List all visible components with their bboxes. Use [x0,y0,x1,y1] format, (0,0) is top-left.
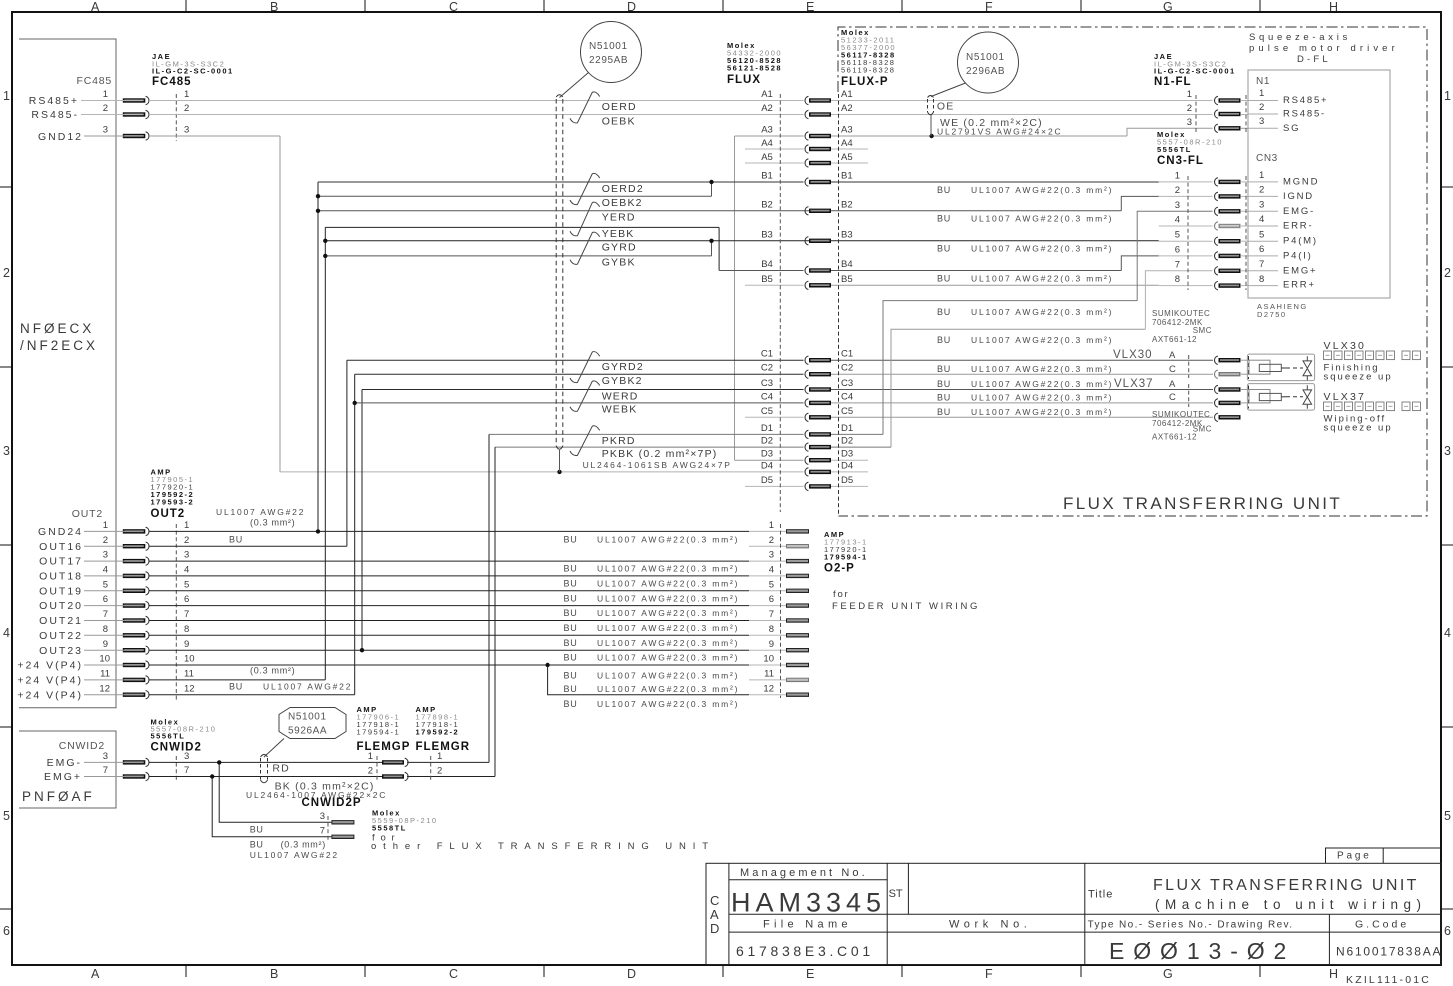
svg-text:RD: RD [272,763,290,775]
svg-text:P4(M): P4(M) [1283,236,1318,247]
page box [1326,848,1442,863]
svg-text:UL1007 AWG#22(0.3 mm²): UL1007 AWG#22(0.3 mm²) [597,684,739,694]
wire OUT19 row5 [84,590,143,592]
wire YEBK (to B4) [325,226,719,228]
svg-text:A4: A4 [761,138,773,149]
svg-text:1: 1 [1175,170,1180,181]
svg-text:3: 3 [103,125,108,136]
twist OERD/OEBK [570,92,600,123]
crimp O2P-10 [786,663,809,667]
svg-text:56121-8528: 56121-8528 [727,64,782,73]
splice CNWID2-7 [123,772,149,780]
svg-text:11: 11 [100,669,110,680]
svg-text:1: 1 [3,89,10,103]
junction GYBK riser [323,254,327,258]
wire GYBK joins B3 [325,255,711,257]
wire WERD / C3 (VLX37 A) [362,389,804,391]
svg-text:CNWID2: CNWID2 [151,742,202,754]
svg-text:4: 4 [1259,214,1264,225]
svg-text:C5: C5 [841,406,853,417]
wire +24V row11 to riser [84,679,143,681]
actuator valve VLX30 [1303,356,1312,380]
maker label SUMIKOUTEC upper [1152,309,1212,344]
valve VLX30 [1247,354,1314,381]
svg-text:other FLUX TRANSFERRING UNIT: other FLUX TRANSFERRING UNIT [371,841,715,852]
svg-text:BU: BU [564,699,578,709]
svg-text:BU: BU [564,535,578,545]
cable sheath marker RD/BK 2C [261,755,268,783]
splice OUT2-3 [123,557,149,565]
svg-text:PKBK (0.2 mm²×7P): PKBK (0.2 mm²×7P) [602,448,718,460]
splice OUT2-12 [123,691,149,699]
crimp O2P-6 [786,603,809,607]
wire B4 net (to CN3 pin6) [719,270,803,272]
svg-text:A4: A4 [841,138,853,149]
svg-text:1: 1 [1259,88,1264,99]
svg-text:7: 7 [184,765,189,776]
svg-text:BU: BU [937,185,951,195]
svg-text:B1: B1 [761,171,773,182]
svg-text:SUMIKOUTEC: SUMIKOUTEC [1152,410,1210,419]
svg-text:A5: A5 [761,152,773,163]
svg-text:UL1007 AWG#22(0.3 mm²): UL1007 AWG#22(0.3 mm²) [971,244,1113,254]
svg-text:B1: B1 [841,171,853,182]
crimp O2P-8 [786,633,809,637]
wire OUT20 row6 [84,605,143,607]
svg-text:3: 3 [1187,117,1192,128]
wire EMG- branch to CNWID2P pin3 [219,762,331,822]
svg-text:4: 4 [103,565,108,576]
svg-text:B2: B2 [761,199,773,210]
svg-text:9: 9 [184,639,189,650]
svg-text:6: 6 [1175,244,1180,255]
splice VLX30-A [1215,356,1241,364]
svg-text:squeeze up: squeeze up [1324,423,1393,434]
connector O2-P header (AMP) [824,530,868,575]
svg-text:BU: BU [250,825,264,835]
svg-text:GND12: GND12 [38,131,83,143]
svg-text:2: 2 [184,103,189,114]
FC485 dashed connector line [175,94,177,141]
vertical PKBK to FLEMGR2 [494,447,496,776]
svg-text:B: B [270,0,278,14]
svg-text:P4(I): P4(I) [1283,250,1313,261]
svg-text:BU: BU [937,407,951,417]
svg-text:A: A [91,967,100,981]
svg-text:D3: D3 [841,449,853,460]
svg-text:3: 3 [184,550,189,561]
svg-text:179594-1: 179594-1 [824,553,868,562]
svg-text:GYRD2: GYRD2 [602,361,644,373]
svg-text:UL1007 AWG#22(0.3 mm²): UL1007 AWG#22(0.3 mm²) [971,379,1113,389]
svg-text:3: 3 [184,125,189,136]
svg-text:BU: BU [564,579,578,589]
stub CN3 pin4 [1159,225,1213,227]
splice CN3-5 [1215,237,1241,245]
svg-text:PNFØAF: PNFØAF [22,789,95,804]
valve VLX37 description [1324,391,1421,434]
splice FC485-2 [123,110,149,118]
svg-text:EØØ13-Ø2: EØØ13-Ø2 [1109,938,1295,964]
svg-text:OUT2: OUT2 [72,508,103,520]
svg-text:179593-2: 179593-2 [151,498,195,507]
svg-text:FLEMGR: FLEMGR [416,741,471,753]
wire cable drain 7P [559,450,561,472]
svg-text:File Name: File Name [763,919,852,931]
svg-text:11: 11 [184,669,194,680]
splice CN3-1 [1215,178,1241,186]
wire EMG+ branch to CNWID2P pin7 [212,777,331,837]
svg-text:2: 2 [1259,185,1264,196]
svg-text:5556TL: 5556TL [1157,145,1192,154]
svg-text:1: 1 [1187,89,1192,100]
svg-text:O2-P: O2-P [824,563,855,575]
connector CN3-FL header (Molex) [1157,130,1223,167]
junction OUT23 riser [360,648,364,652]
splice FLUX-B2 [805,207,831,215]
twist WERD/WEBK [570,381,600,411]
svg-text:BU: BU [937,393,951,403]
stub A5 [745,162,804,164]
junction GYRD riser [323,239,327,243]
svg-text:9: 9 [769,639,774,650]
svg-text:(0.3 mm²): (0.3 mm²) [250,518,295,528]
splice N1-3 [1215,124,1241,132]
svg-text:1: 1 [1259,170,1264,181]
wire OUT22 row8 [84,634,143,636]
crimp O2P-1 [786,529,809,533]
wire OUT18 row4 [84,575,143,577]
svg-text:N1-FL: N1-FL [1154,76,1192,88]
svg-text:C3: C3 [761,378,773,389]
svg-text:N1: N1 [1256,76,1270,87]
svg-text:BU: BU [937,214,951,224]
svg-text:D1: D1 [841,423,853,434]
connector FLUX-P header (Molex) [841,28,896,88]
twist GYRD/GYBK [570,232,600,264]
svg-text:VLX30: VLX30 [1324,340,1367,352]
svg-text:B4: B4 [761,259,773,270]
svg-text:A2: A2 [761,103,773,114]
svg-text:2295AB: 2295AB [589,55,628,66]
svg-text:HAM3345: HAM3345 [731,888,886,918]
solenoid plug VLX37 [1249,390,1270,403]
junction +24V branch [545,663,549,667]
twist YERD/YEBK [570,202,600,236]
crimp O2P-11 [786,678,809,682]
svg-text:UL1007 AWG#22: UL1007 AWG#22 [250,850,339,860]
svg-text:YERD: YERD [602,212,636,224]
svg-text:C: C [710,893,719,908]
splice CN3-2 [1215,192,1241,200]
left ticks [0,187,12,909]
splice FLUX-A2 [805,110,831,118]
solenoid plug VLX30 [1249,360,1270,374]
FLUX-P pin name labels (right column) [841,89,853,486]
svg-text:BU: BU [937,244,951,254]
svg-text:1: 1 [1444,89,1451,103]
wire YERD / B2 net (IGND) [318,210,1121,212]
svg-text:AXT661-12: AXT661-12 [1152,335,1197,344]
crimp O2P-9 [786,648,809,652]
svg-text:OE: OE [937,101,955,113]
svg-text:Management No.: Management No. [740,867,868,879]
svg-text:G.Code: G.Code [1355,919,1409,931]
wire EMG- (RD) to FLEMGP1 [84,761,143,763]
svg-text:VLX30: VLX30 [1113,349,1153,361]
svg-text:D5: D5 [841,475,853,486]
svg-text:B2: B2 [841,199,853,210]
svg-text:D: D [627,0,636,14]
junction YERD riser [316,209,320,213]
svg-text:A: A [1169,379,1176,390]
splice OUT2-6 [123,601,149,609]
splice FLUX-D5 [805,482,831,490]
svg-text:3: 3 [320,811,325,822]
svg-text:5556TL: 5556TL [151,732,186,741]
svg-text:7: 7 [1259,259,1264,270]
crimp O2P-5 [786,589,809,593]
driver box [1248,70,1390,298]
svg-text:C4: C4 [841,391,853,402]
svg-text:EMG+: EMG+ [44,771,82,783]
splice FLUX-B4 [805,266,831,274]
svg-text:H: H [1329,967,1338,981]
wire OUT23 row9 [84,649,143,651]
svg-text:6: 6 [1444,924,1451,938]
svg-text:1: 1 [769,520,774,531]
svg-text:56119-8328: 56119-8328 [841,66,895,75]
right ticks [1441,187,1453,909]
svg-text:OUT16: OUT16 [39,541,83,553]
svg-text:D3: D3 [761,449,773,460]
svg-text:GYBK2: GYBK2 [602,375,643,387]
actuator valve VLX37 [1303,385,1312,409]
splice N1-1 [1215,96,1241,104]
crimp O2P-4 [786,574,809,578]
wire A3 branch down to D3 [734,136,736,460]
svg-text:6: 6 [184,594,189,605]
svg-text:UL1007 AWG#22(0.3 mm²): UL1007 AWG#22(0.3 mm²) [971,307,1113,317]
svg-text:10: 10 [184,654,195,665]
wire GYBK2 / C2 (VLX30 C) [355,373,804,375]
splice OUT2-1 [123,527,149,535]
svg-text:2: 2 [1175,185,1180,196]
FLUX dashed connector line [779,94,781,512]
svg-text:7: 7 [184,609,189,620]
svg-text:BU: BU [564,653,578,663]
splice CN3-4 (no wire) [1215,222,1241,230]
svg-text:EMG-: EMG- [1283,206,1315,217]
splice OUT2-10 [123,661,149,669]
svg-text:(0.3 mm²): (0.3 mm²) [281,840,326,850]
svg-text:SUMIKOUTEC: SUMIKOUTEC [1152,309,1210,318]
wire RS485+ / A1 net [81,100,143,102]
svg-text:BU: BU [564,564,578,574]
svg-text:RS485-: RS485- [31,109,79,121]
svg-text:8: 8 [184,624,189,635]
svg-text:C: C [1169,364,1176,375]
svg-text:6: 6 [1259,244,1264,255]
svg-text:C: C [449,0,458,14]
connector OUT2 header (AMP) [151,468,195,521]
svg-text:8: 8 [103,624,108,635]
signal labels RS485+/-, GND12 [29,95,83,143]
svg-text:BU: BU [564,593,578,603]
svg-text:GYRD: GYRD [602,242,637,254]
splice FLUX-D3 [805,456,831,464]
svg-text:FC485: FC485 [152,76,192,88]
svg-text:CNWID2P: CNWID2P [302,797,362,809]
splice FLUX-D4 [805,468,831,476]
splice FLUX-D1 [805,430,831,438]
svg-text:4: 4 [3,626,10,640]
connector FLEMGR header (AMP) [416,705,471,753]
wire EMG+ (BK) to FLEMGP2 [84,776,143,778]
svg-text:3: 3 [103,550,108,561]
svg-text:F: F [985,967,993,981]
svg-text:2: 2 [3,266,10,280]
svg-text:3: 3 [103,751,108,762]
svg-text:+24 V(P4): +24 V(P4) [17,689,83,701]
svg-text:ST: ST [889,888,903,900]
svg-text:7: 7 [1175,259,1180,270]
svg-text:D: D [627,967,636,981]
svg-text:5: 5 [1259,230,1264,241]
board NF0ECX/NF2ECX outline [19,39,116,708]
FLUX-P connector dashed line / box left edge [838,94,840,516]
svg-text:6: 6 [769,594,774,605]
svg-text:C: C [449,967,458,981]
valve VLX37 [1247,384,1314,411]
svg-text:OUT19: OUT19 [39,585,83,597]
svg-text:SG: SG [1283,123,1300,134]
svg-text:2296AB: 2296AB [966,66,1005,77]
splice FC485-1 [123,96,149,104]
svg-text:WERD: WERD [602,390,639,402]
wire B5 net (ERR+) [830,284,1159,286]
svg-text:A3: A3 [841,125,853,136]
splice FLUX-A3 [805,132,831,140]
svg-text:OEBK2: OEBK2 [602,197,643,209]
svg-text:squeeze up: squeeze up [1324,372,1393,383]
splice CN3-6 [1215,252,1241,260]
vertical GYRD2 riser to OUT16 [346,360,348,546]
svg-text:MGND: MGND [1283,176,1319,187]
splice N1-2 [1215,110,1241,118]
crimp O2P-12 [786,693,809,697]
stub A4 [745,148,804,150]
svg-text:D2: D2 [761,436,773,447]
cable sheath marker WE 2C [928,96,934,137]
svg-text:UL1007 AWG#22(0.3 mm²): UL1007 AWG#22(0.3 mm²) [971,393,1113,403]
vertical WERD riser to OUT23 [361,390,363,651]
svg-text:BU: BU [564,638,578,648]
svg-text:UL1007 AWG#22(0.3 mm²): UL1007 AWG#22(0.3 mm²) [597,623,739,633]
svg-text:IL-G-C2-SC-0001: IL-G-C2-SC-0001 [1154,67,1236,76]
svg-text:UL1007 AWG#22(0.3 mm²): UL1007 AWG#22(0.3 mm²) [971,214,1113,224]
wire OUT21 row7 [84,620,143,622]
splice CN3-7 [1215,267,1241,275]
svg-text:8: 8 [1175,274,1180,285]
connector CNWID2P header (Molex) [372,809,438,833]
splice VLX30-C [1215,370,1241,378]
svg-text:1: 1 [368,751,373,762]
splice FLEMG-2 [382,772,408,780]
svg-text:10: 10 [99,654,110,665]
svg-text:N51001: N51001 [589,41,628,52]
svg-text:pulse motor driver: pulse motor driver [1249,43,1399,54]
svg-text:NFØECX: NFØECX [20,321,94,336]
svg-text:B5: B5 [841,274,853,285]
connector CNWID2 header (Molex) [151,718,217,754]
bottom ticks [186,965,1260,977]
valve VLX30 description [1324,340,1421,383]
svg-text:5: 5 [1175,230,1180,241]
vertical GYBK2/WEBK riser to pin12 [354,374,356,695]
splice CN3-3 [1215,207,1241,215]
twist PKRD/PKBK [570,426,600,456]
wire GND12 branch down to D4 [279,136,281,472]
splice FLUX-D2 [805,443,831,451]
svg-text:UL2464-1061SB AWG24×7P: UL2464-1061SB AWG24×7P [583,460,732,470]
svg-text:E: E [806,0,814,14]
svg-text:Page: Page [1337,851,1372,862]
FC485 pin numbers [103,89,190,136]
svg-text:2: 2 [437,766,442,777]
svg-text:FLEMGP: FLEMGP [357,741,411,753]
wire +24V row10 [84,664,143,666]
svg-text:UL1007 AWG#22(0.3 mm²): UL1007 AWG#22(0.3 mm²) [597,593,739,603]
svg-text:1: 1 [103,89,108,100]
svg-text:OEBK: OEBK [602,115,636,127]
splice FLUX-B1 [805,178,831,186]
svg-text:OUT17: OUT17 [39,556,83,568]
svg-text:FLUX TRANSFERRING UNIT: FLUX TRANSFERRING UNIT [1153,877,1419,894]
junction EMG+ branch [210,774,214,778]
svg-text:7: 7 [320,826,325,837]
junction WEBK riser [353,401,357,405]
svg-text:OUT22: OUT22 [39,630,83,642]
splice FLUX-C2 [805,370,831,378]
svg-text:UL2791VS AWG#24×2C: UL2791VS AWG#24×2C [937,127,1062,137]
svg-text:A: A [91,0,100,14]
svg-text:3: 3 [769,550,774,561]
svg-text:UL1007 AWG#22(0.3 mm²): UL1007 AWG#22(0.3 mm²) [597,638,739,648]
svg-text:D-FL: D-FL [1297,54,1331,65]
svg-text:UL1007 AWG#22: UL1007 AWG#22 [216,507,305,517]
svg-text:WEBK: WEBK [602,404,638,416]
svg-text:ERR-: ERR- [1283,221,1313,232]
stub C5 left [745,416,804,418]
unit boundary dash-dot box [838,27,1427,516]
svg-text:IGND: IGND [1283,191,1314,202]
wire GND24 row1 [84,530,143,532]
O2-P light stubs [749,530,786,532]
svg-text:617838E3.C01: 617838E3.C01 [736,943,874,959]
crimp O2P-7 [786,618,809,622]
svg-text:H: H [1329,0,1338,14]
connector FLUX header (Molex) [727,41,782,86]
svg-text:VLX37: VLX37 [1324,391,1367,403]
connector N1-FL header (JAE) [1154,52,1236,88]
wire GND12 / A3 / SG net [84,135,143,137]
svg-text:(Machine to unit wiring): (Machine to unit wiring) [1155,897,1427,912]
svg-text:AXT661-12: AXT661-12 [1152,433,1197,442]
svg-text:3: 3 [1259,200,1264,211]
svg-text:VLX37: VLX37 [1114,378,1154,390]
junction EMG- branch [217,760,221,764]
